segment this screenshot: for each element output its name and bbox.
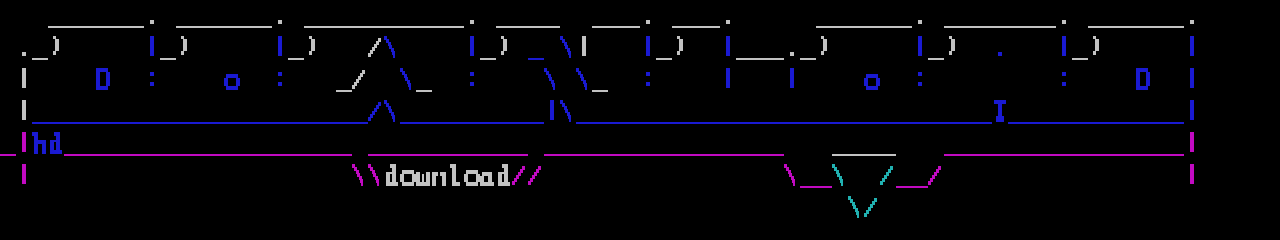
blue layer: D : o : letters, pipes, long baseline, "hd" logo text, T: [32, 36, 1194, 154]
gray layer: top outline underscores/dots, parens, slash apex, "download" text, funnel top bar: [22, 20, 1194, 186]
magenta layer: lower frame line, side pipes, backslashes/slashes around "download", funnel sides: [0, 132, 1194, 188]
cyan layer: down-arrow chevrons of the funnel: [832, 164, 893, 218]
